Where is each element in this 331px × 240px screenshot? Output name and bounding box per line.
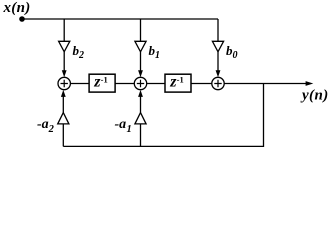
wire S1 to delay Z1 [70, 83, 88, 85]
wire Z2 to adder S3 [192, 83, 212, 85]
delay z^-1 block Z2 [165, 74, 191, 92]
wire top horizontal [22, 18, 218, 20]
wire b0 to adder S3 with arrowhead [217, 52, 219, 71]
wire b0 branch down [217, 19, 219, 41]
wire -a1 branch up from feedback [140, 124, 142, 146]
svg-text:y(n): y(n) [300, 88, 329, 104]
wire Z1 to adder S2 [116, 83, 135, 85]
gain -a2 triangle [58, 113, 69, 124]
wire S2 to delay Z2 [147, 83, 165, 85]
adder S1 [58, 77, 70, 89]
node input dot [19, 16, 25, 22]
wire feedback from output node down and left [63, 84, 263, 147]
adder S2 [134, 77, 146, 89]
svg-text:x(n): x(n) [3, 0, 31, 16]
gain b2 triangle [59, 41, 70, 52]
adder S3 [212, 77, 224, 89]
gain b1 triangle [135, 41, 146, 52]
wire b2 branch down [63, 19, 65, 41]
gain -a1 triangle [135, 113, 146, 124]
gain b0 triangle [212, 41, 223, 52]
wire output with arrowhead [224, 83, 306, 85]
wire -a2 branch up from feedback [62, 124, 64, 146]
wire -a1 to adder S2 with arrowhead [140, 97, 142, 113]
wire b2 to adder S1 with arrowhead [63, 52, 65, 71]
wire b1 to adder S2 with arrowhead [140, 52, 142, 71]
wire b1 branch down [140, 19, 142, 41]
delay z^-1 block Z1 [89, 74, 115, 92]
wire -a2 to adder S1 with arrowhead [62, 97, 64, 113]
